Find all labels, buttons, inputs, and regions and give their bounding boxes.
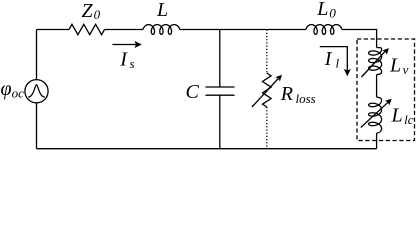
wire Llc to bottom rail xyxy=(376,133,378,149)
resistor Z0 xyxy=(69,24,105,34)
arrow through R_loss xyxy=(252,75,282,107)
label L0 xyxy=(316,0,336,20)
wire between L and node C (top rail) xyxy=(180,29,306,31)
inductor L0 xyxy=(306,25,342,35)
resistor R_loss (zigzag) xyxy=(263,73,272,107)
svg-text:Is: Is xyxy=(119,49,134,71)
wire source bottom to rail xyxy=(36,103,38,149)
capacitor C plates xyxy=(206,87,235,95)
dotted wire R_loss bottom xyxy=(266,107,268,149)
inductor Llc (variable) xyxy=(369,97,382,133)
wire bottom rail xyxy=(37,148,377,150)
label Z0 xyxy=(82,0,101,22)
svg-text:L: L xyxy=(156,0,168,21)
current arrow I_s xyxy=(112,41,141,48)
svg-text:L0: L0 xyxy=(316,0,336,20)
label R_loss xyxy=(280,83,316,106)
label I_l xyxy=(324,48,340,70)
wire C bottom plate to rail xyxy=(219,95,221,149)
label L xyxy=(156,0,168,21)
dotted wire R_loss top xyxy=(266,30,268,74)
arrow through Lv xyxy=(362,48,389,77)
label L_v xyxy=(389,54,409,77)
svg-text:Rloss: Rloss xyxy=(280,83,316,106)
svg-text:Z0: Z0 xyxy=(82,0,101,22)
svg-text:φoc: φoc xyxy=(1,78,25,100)
pulse symbol inside source xyxy=(28,85,44,98)
label phi_oc xyxy=(1,78,25,100)
label C xyxy=(186,81,200,103)
inductor Lv (variable) xyxy=(369,48,382,75)
wire between Z0 and L xyxy=(105,29,144,31)
svg-text:Lv: Lv xyxy=(389,54,409,77)
wire between Lv and Llc xyxy=(376,75,378,97)
svg-text:C: C xyxy=(186,81,200,103)
voltage source phi_oc (circle) xyxy=(25,80,48,103)
arrow through Llc xyxy=(361,99,392,128)
inductor L xyxy=(143,25,180,35)
svg-text:Il: Il xyxy=(324,48,340,70)
svg-text:Llc: Llc xyxy=(391,105,414,128)
wire source top to rail corner xyxy=(36,30,38,80)
label I_s xyxy=(119,49,134,71)
wire top rail left segment (source to Z0) xyxy=(37,29,70,31)
wire node C top (rail to plate) xyxy=(219,30,221,88)
label L_lc xyxy=(391,105,414,128)
dashed box (tank load) xyxy=(357,39,415,141)
wire between L0 and right branch corner xyxy=(342,30,377,48)
current arrow I_l (bent) xyxy=(320,47,351,77)
